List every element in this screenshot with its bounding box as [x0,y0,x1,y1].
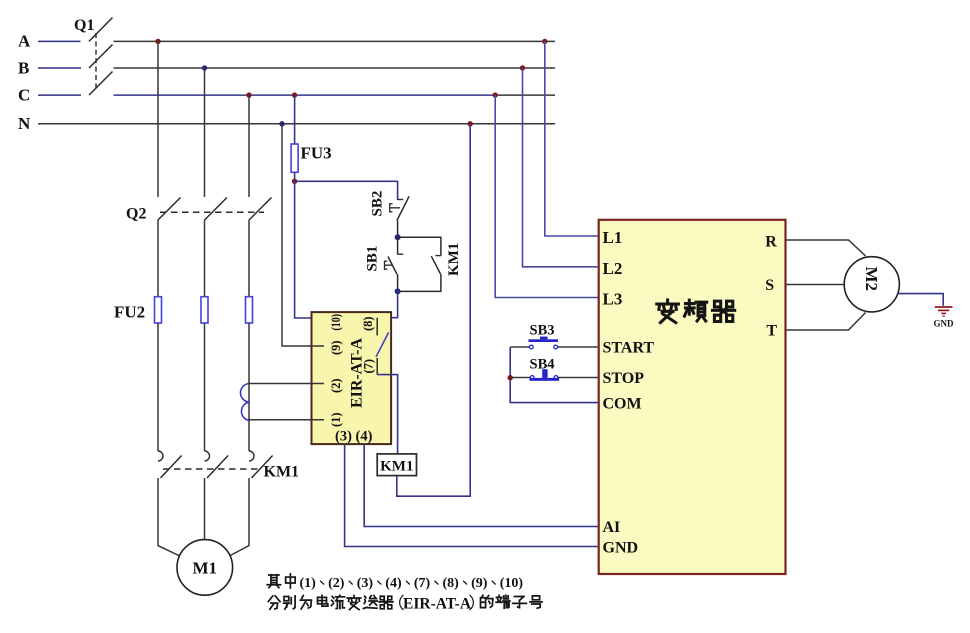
svg-text:(4): (4) [385,576,402,591]
svg-text:FU3: FU3 [301,144,332,163]
pushbutton SB2 (NC stop) [370,191,410,238]
caption line 2 [268,595,542,612]
svg-text:SB1: SB1 [365,246,381,272]
fuse FU2 phase B [201,297,208,323]
svg-text:R: R [765,234,777,251]
wire CT to terminal 1 [248,419,324,421]
wire FU3 junction to SB2 [295,181,398,200]
ground GND [934,307,955,329]
svg-text:B: B [18,59,29,78]
junction SB2 bottom [395,234,401,240]
svg-text:START: START [603,340,655,357]
switch Q2 [126,198,272,223]
pin 8 label [361,316,375,331]
svg-text:M1: M1 [193,559,218,578]
transmitter EIR-AT-A box [312,312,392,444]
VFD terminal S [765,277,774,294]
svg-text:COM: COM [603,396,642,413]
svg-text:Q2: Q2 [126,206,146,223]
svg-text:FU2: FU2 [114,303,145,322]
wire drop A to Q2 [157,41,159,197]
motor M2 [844,257,899,312]
contact KM1 auxiliary (hold-in) [398,237,462,291]
VFD terminal COM [603,396,642,413]
wire KM1 to motor right [227,478,250,558]
svg-text:(2): (2) [329,378,343,393]
junction on A at x158 [155,39,160,44]
pushbutton SB4 (stop) [510,357,599,381]
wire Q2 to FU2 column3 [248,220,250,297]
wire phase A main [114,40,556,42]
pushbutton SB1 (NO start) [365,237,404,291]
wire Q2 to FU2 column1 [157,220,159,297]
svg-text:(10): (10) [500,576,524,591]
VFD terminal L1 [603,228,623,247]
wire phase B main [114,67,556,69]
wire drop B to Q2 [204,68,206,197]
junction on C at x495.2 [493,92,498,97]
junction on N at x282 [279,121,284,126]
wire drop C to Q2 [248,95,250,197]
svg-text:T: T [766,323,777,340]
fuse FU3 [291,95,332,181]
svg-text:(9): (9) [471,576,488,591]
wire CT to terminal 2 [248,383,324,385]
wire B to L2 [523,68,599,267]
pin 3 pin 4 labels [335,429,373,445]
svg-text:L1: L1 [603,228,623,247]
fuse FU2 phase C [246,297,253,323]
EIR internal relay contact pins 8-7 [376,318,389,375]
VFD terminal GND [603,540,639,557]
svg-text:STOP: STOP [603,370,645,387]
junction SB1 bottom [395,288,401,294]
wire FU2 to KM1 column1 [157,323,159,451]
junction SB4 left [508,375,513,380]
pin 7 label [362,359,376,374]
node A [18,32,31,51]
caption line 1 [267,574,523,591]
junction on B at x522.5 [520,65,525,70]
wire SB1 junction to terminal 8 [377,291,397,317]
VFD terminal L2 [603,259,623,278]
pin 2 label [329,378,343,393]
svg-text:(1): (1) [329,412,343,427]
svg-text:L2: L2 [603,259,623,278]
svg-text:KM1: KM1 [380,459,413,475]
VFD terminal T [766,323,777,340]
svg-text:GND: GND [934,319,955,329]
VFD terminal START [603,340,655,357]
svg-text:S: S [765,277,774,294]
wire C to L3 [495,95,599,297]
junction on C at x249 [246,92,251,97]
svg-text:(10): (10) [329,314,343,331]
wire R to M2 [786,240,866,256]
breaker Q1 [74,17,113,95]
pushbutton SB3 (start) [510,323,599,349]
wire pin 7 to KM1 coil [377,375,397,454]
VFD title bianpinqi [657,300,735,323]
svg-text:N: N [18,114,31,133]
pin 1 label [329,412,343,427]
svg-text:(2): (2) [328,576,345,591]
svg-text:(3) (4): (3) (4) [335,429,373,445]
fuse FU2 label [114,303,145,322]
pin 10 label [329,314,343,331]
junction below FU3 [292,179,297,184]
VFD terminal L3 [603,290,623,309]
svg-text:(9): (9) [329,340,343,355]
junction on C at x294.6 [292,92,297,97]
wire A to L1 [545,41,599,236]
svg-text:(7): (7) [362,359,376,374]
current transformer on phase C [241,384,250,421]
junction on A at x544.8 [542,39,547,44]
wire phase C left [38,94,81,96]
wire KM1 to motor middle [204,478,206,540]
wire N drop to terminal 9 [282,124,324,346]
pin 9 label [329,340,343,355]
VFD terminal STOP [603,370,645,387]
node B [18,59,29,78]
node C [18,86,30,105]
inverter VFD box [599,220,786,574]
wire SB3 SB4 common to COM [510,347,599,403]
wire neutral N main [38,123,555,125]
wire M2 to ground [898,294,943,306]
wire terminal 3 to GND [345,444,599,546]
svg-text:AI: AI [603,519,621,536]
svg-text:(8): (8) [361,316,375,331]
svg-text:A: A [18,32,31,51]
svg-text:KM1: KM1 [446,243,462,276]
svg-text:(3): (3) [357,576,374,591]
contactor KM1 main contacts [158,451,299,481]
svg-text:(8): (8) [443,576,460,591]
VFD terminal AI [603,519,621,536]
junction on N at x470.2 [468,121,473,126]
wire phase C main [114,94,556,96]
wire T to M2 [786,313,866,331]
wire phase A left [38,40,81,42]
wire terminal 4 to AI [364,444,599,526]
svg-text:M2: M2 [862,267,881,292]
svg-text:(7): (7) [414,576,431,591]
VFD terminal R [765,234,777,251]
wire FU3 junction down to terminal 10 [295,181,324,318]
svg-text:SB4: SB4 [530,357,555,373]
node N [18,114,31,133]
svg-text:EIR-AT-A: EIR-AT-A [403,596,472,613]
coil KM1 [377,454,416,476]
svg-text:SB3: SB3 [530,323,555,339]
svg-text:(1): (1) [300,576,317,591]
svg-text:C: C [18,86,30,105]
svg-text:SB2: SB2 [370,191,386,217]
wire S to M2 [786,284,845,286]
junction on B at x204.5 [202,65,207,70]
wire Q2 to FU2 column2 [204,220,206,297]
svg-text:KM1: KM1 [264,464,300,481]
svg-text:L3: L3 [603,290,623,309]
svg-text:Q1: Q1 [74,17,94,34]
wire phase B left [38,67,81,69]
wire KM1 coil to N [397,124,470,496]
motor M1 [177,540,233,596]
wire KM1 to motor left [158,478,183,558]
svg-text:GND: GND [603,540,639,557]
fuse FU2 phase A [155,297,162,323]
wire FU2 to KM1 column3 [248,323,250,451]
wire FU2 to KM1 column2 [204,323,206,451]
